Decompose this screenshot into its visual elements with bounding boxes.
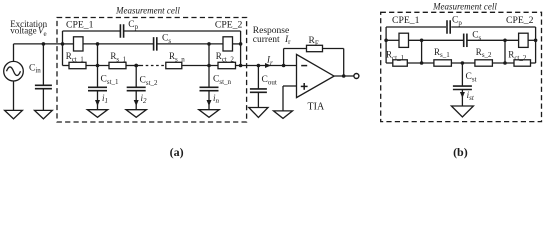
- svg-text:Cst_2: Cst_2: [140, 76, 159, 87]
- svg-text:Ir: Ir: [284, 35, 291, 46]
- svg-text:Rct_1: Rct_1: [66, 51, 85, 63]
- svg-text:current: current: [253, 35, 280, 45]
- svg-text:Rct_2: Rct_2: [216, 51, 235, 63]
- svg-text:Cp: Cp: [128, 20, 138, 31]
- svg-text:Cs: Cs: [472, 31, 481, 42]
- svg-text:Cs: Cs: [162, 34, 171, 45]
- svg-text:Measurement cell: Measurement cell: [115, 6, 180, 16]
- svg-text:Rs_1: Rs_1: [110, 51, 126, 63]
- svg-text:Cst: Cst: [466, 72, 477, 83]
- svg-text:Cout: Cout: [262, 75, 277, 86]
- svg-text:CPE_2: CPE_2: [506, 15, 534, 26]
- svg-text:RF: RF: [309, 36, 319, 47]
- svg-text:Rs_1: Rs_1: [434, 47, 450, 59]
- svg-text:Rs_n: Rs_n: [169, 51, 185, 63]
- svg-text:Measurement cell: Measurement cell: [432, 2, 497, 12]
- svg-text:(a): (a): [170, 145, 184, 159]
- svg-text:Rs_2: Rs_2: [476, 47, 492, 59]
- svg-text:TIA: TIA: [308, 101, 325, 112]
- svg-text:i2: i2: [141, 93, 148, 105]
- svg-text:voltage: voltage: [10, 26, 37, 36]
- svg-text:Cst_n: Cst_n: [213, 75, 232, 86]
- svg-text:Rct_2: Rct_2: [508, 50, 527, 62]
- svg-text:Rct_1: Rct_1: [386, 50, 405, 62]
- svg-text:i1: i1: [102, 93, 108, 105]
- svg-text:Cp: Cp: [452, 16, 462, 27]
- svg-text:CPE_1: CPE_1: [66, 20, 94, 31]
- svg-text:in: in: [213, 93, 220, 105]
- svg-text:CPE_1: CPE_1: [392, 15, 420, 26]
- svg-text:Cin: Cin: [29, 63, 41, 74]
- svg-text:Cst_1: Cst_1: [101, 75, 120, 86]
- svg-text:CPE_2: CPE_2: [215, 20, 243, 31]
- svg-text:(b): (b): [453, 145, 468, 159]
- svg-text:ist: ist: [467, 90, 475, 102]
